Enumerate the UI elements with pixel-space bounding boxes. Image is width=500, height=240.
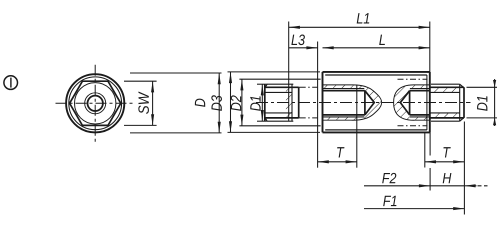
crest lines — [431, 83, 460, 85]
dimension H — [430, 185, 487, 187]
L1 label — [357, 13, 370, 23]
stud OD lines — [265, 86, 299, 88]
left tapped hole — [323, 85, 382, 120]
SW label — [138, 91, 149, 113]
front view centerline vertical — [94, 65, 96, 142]
H label — [443, 173, 452, 183]
L label — [379, 35, 385, 45]
section boundary — [394, 85, 430, 120]
stud right face — [298, 87, 300, 118]
front view centerline horizontal — [56, 102, 135, 104]
stud thread crest lines — [266, 83, 293, 85]
right tapped hole — [394, 85, 430, 120]
knurl zone phantom lines D2 — [398, 78, 428, 80]
dimension D — [130, 73, 222, 133]
dimension L3 — [289, 42, 318, 168]
dimension D2 — [239, 79, 320, 126]
stud left face — [264, 84, 266, 121]
thread hatch bottom band — [430, 113, 460, 118]
T right label — [443, 147, 450, 157]
dimension F2 — [364, 132, 430, 190]
center hole D1 — [88, 96, 103, 111]
T left label — [337, 147, 344, 157]
center hole chamfer — [85, 93, 106, 114]
right face — [463, 87, 465, 118]
stud root lines — [265, 91, 292, 93]
stud hatch patch — [286, 87, 292, 118]
L3 label — [291, 35, 305, 46]
dimension T right — [425, 122, 465, 215]
OD lines — [430, 86, 464, 88]
drill cone — [400, 91, 409, 115]
body hex flat lines — [325, 74, 427, 76]
dimension F1 — [364, 208, 464, 210]
dimension L1 — [289, 22, 430, 122]
stud left chamfer — [265, 84, 267, 88]
chamfer circle — [69, 77, 122, 130]
body outline — [323, 72, 430, 132]
balloon item 1 — [4, 76, 18, 90]
hexagon SW — [70, 81, 121, 125]
root lines — [430, 91, 460, 93]
D1 right label — [477, 96, 487, 111]
D2 label — [231, 95, 241, 111]
section boundary — [323, 85, 382, 120]
stud phantom insertion lines — [299, 86, 318, 88]
thread major lines — [410, 90, 430, 92]
dimension D1 left — [257, 84, 266, 121]
thread crest lines — [410, 88, 430, 90]
dimension D1 right — [467, 79, 498, 126]
thread major lines — [323, 90, 365, 92]
F2 label — [382, 173, 396, 183]
D1 left label — [250, 96, 260, 111]
right stud — [430, 84, 464, 121]
D3 label — [211, 95, 222, 111]
dimension L — [323, 47, 430, 49]
thread end face — [409, 91, 411, 115]
SW dimension — [124, 81, 157, 125]
stud thread runout — [291, 84, 293, 121]
side view centerline — [256, 102, 471, 104]
thread crest lines — [323, 88, 365, 90]
drill cone — [365, 91, 374, 115]
F1 label — [383, 196, 396, 206]
D label — [195, 99, 205, 107]
dimension D3 — [228, 72, 321, 132]
dimension T left — [318, 85, 357, 168]
outer circle (body diameter D) — [66, 74, 124, 132]
chamfer line — [459, 84, 461, 121]
end chamfer diagonals — [460, 84, 464, 88]
section hatch band — [323, 85, 382, 120]
section hatch band — [394, 85, 430, 120]
thread hatch top band — [430, 87, 460, 92]
hexagon inscribed chamfer circle — [75, 83, 116, 124]
left stud Q — [265, 84, 318, 121]
body right chamfer edge — [426, 75, 428, 130]
thread end face — [364, 91, 366, 115]
